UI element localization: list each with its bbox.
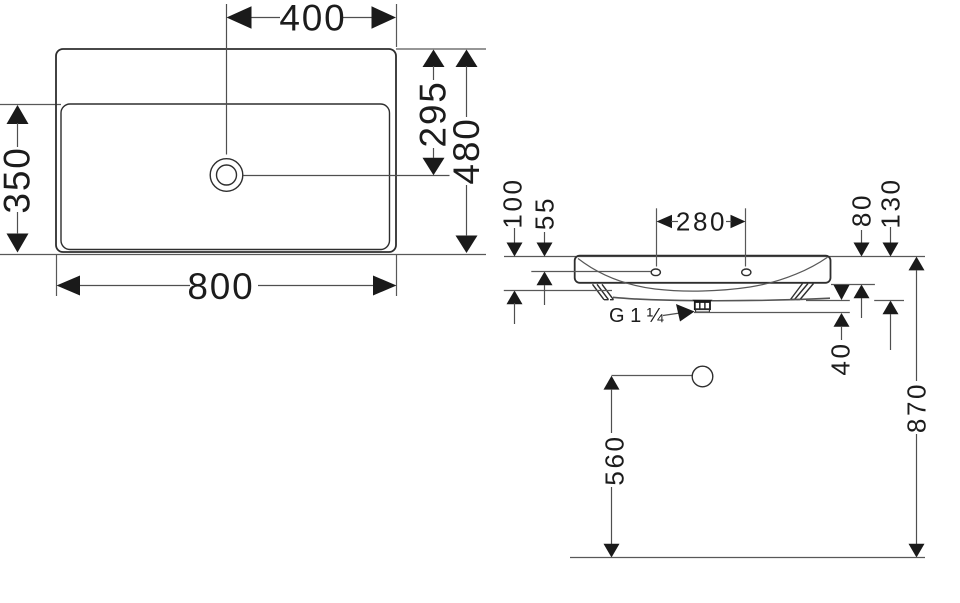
label G 1 1/4 with leader arrow <box>609 304 695 327</box>
extension line top right (basin top edge extended) <box>396 48 486 50</box>
bowl underside curve <box>613 297 830 300</box>
svg-text:480: 480 <box>446 117 487 184</box>
right mounting bracket <box>791 284 814 300</box>
svg-text:280: 280 <box>676 207 727 237</box>
svg-text:G 1 ¼: G 1 ¼ <box>609 305 664 327</box>
svg-text:870: 870 <box>902 382 932 433</box>
dimension 400 <box>227 0 397 47</box>
bowl interior profile curve <box>578 257 828 291</box>
extension line bottom (full width under basin) <box>0 254 486 256</box>
svg-text:350: 350 <box>0 146 38 213</box>
G 1 1/4 reference line <box>694 312 850 314</box>
dimension 870 <box>902 257 932 558</box>
svg-text:400: 400 <box>279 0 346 39</box>
dimension 800 <box>57 255 397 307</box>
svg-text:55: 55 <box>530 196 560 230</box>
dimension 80 <box>847 193 877 318</box>
centerline vertical to drain <box>226 4 228 155</box>
130 reference line <box>874 300 904 302</box>
floor line <box>570 557 925 559</box>
basin slab outline <box>575 256 831 283</box>
left mounting bracket <box>593 284 614 299</box>
centerline horizontal from drain <box>243 175 449 177</box>
drain outer circle <box>210 159 243 192</box>
dimension 100 <box>498 177 528 324</box>
wall outlet circle <box>692 366 713 387</box>
basin inner rim <box>61 104 390 250</box>
55 reference line <box>531 271 651 273</box>
basin outer outline <box>56 49 396 252</box>
dimension 280 <box>657 207 746 267</box>
svg-text:80: 80 <box>847 193 877 227</box>
svg-text:800: 800 <box>187 266 254 307</box>
drain nut flange <box>692 300 712 302</box>
svg-text:100: 100 <box>498 177 528 228</box>
faucet hole right <box>742 269 751 276</box>
drain inner circle <box>217 165 237 185</box>
dimension 295 <box>413 50 454 176</box>
svg-text:560: 560 <box>600 434 630 485</box>
dimension 40 <box>826 285 856 376</box>
dimension 480 <box>446 50 487 254</box>
80 reference line <box>831 284 875 286</box>
extension line left (inner rim top extended) <box>0 104 61 106</box>
dimension 55 <box>530 196 560 305</box>
dimension 130 <box>876 177 906 350</box>
drain nut collar <box>696 309 710 312</box>
svg-text:130: 130 <box>876 177 906 228</box>
underside reference line <box>806 300 850 302</box>
drain nut body <box>695 302 710 309</box>
560 top reference line <box>612 375 693 377</box>
faucet hole left <box>651 269 660 276</box>
svg-text:40: 40 <box>826 341 856 375</box>
100 reference line <box>504 290 612 292</box>
wall/top reference line <box>504 256 925 258</box>
dimension 350 <box>0 105 38 253</box>
dimension 560 <box>600 376 630 558</box>
